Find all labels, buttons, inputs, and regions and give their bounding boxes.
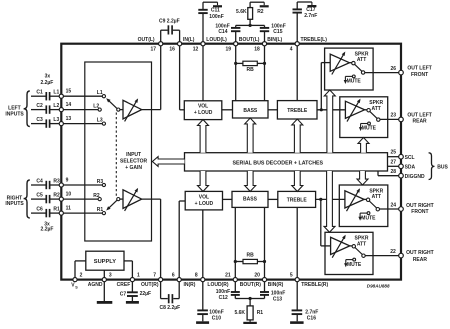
wire LOUD(L) pin 12 into volume block xyxy=(202,44,204,101)
pin 26 OUT LEFT FRONT xyxy=(390,66,431,78)
svg-text:L3: L3 xyxy=(97,117,103,123)
svg-text:1: 1 xyxy=(137,273,140,279)
SPKR ATT right front switch to output xyxy=(364,198,379,211)
pin 24 OUT RIGHT FRONT xyxy=(390,202,433,215)
node treble right output junction xyxy=(319,198,322,201)
junction RB left at pin 19 line xyxy=(234,62,237,65)
block BASS right xyxy=(232,191,268,207)
LEFT INPUTS label and brace xyxy=(5,91,29,127)
wire CREF pin 1 to supply xyxy=(124,261,132,280)
junction of C12 C13 and R1 xyxy=(249,297,252,300)
svg-text:OUT(R): OUT(R) xyxy=(141,282,159,288)
SPKR ATT left front box xyxy=(325,48,374,90)
block VOL + LOUD left xyxy=(184,101,222,120)
svg-text:27: 27 xyxy=(390,159,396,165)
IC package outline TDA7448 xyxy=(61,44,401,280)
junction of C14 C15 and R2 xyxy=(249,24,252,27)
SPKR ATT left front amplifier xyxy=(330,52,349,75)
svg-text:+ GAIN: + GAIN xyxy=(125,165,142,171)
svg-text:C11: C11 xyxy=(211,8,220,14)
svg-text:BOUT(R): BOUT(R) xyxy=(240,282,261,288)
svg-text:OUT RIGHT: OUT RIGHT xyxy=(406,203,434,209)
svg-text:INPUT: INPUT xyxy=(126,152,141,158)
SPKR ATT right rear mute switch xyxy=(344,258,362,268)
svg-text:MUTE: MUTE xyxy=(347,262,362,268)
SPKR ATT left rear amplifier xyxy=(345,99,364,122)
svg-text:TREBLE: TREBLE xyxy=(287,108,308,114)
svg-text:3: 3 xyxy=(109,273,112,279)
capacitor C5 2.2uF input coupling right channel xyxy=(31,193,61,204)
svg-text:SDA: SDA xyxy=(405,164,416,170)
control arrow to TREBLE left xyxy=(292,119,303,153)
wire volume to bass left xyxy=(222,109,233,111)
svg-text:C4: C4 xyxy=(36,178,43,184)
op-amp left input gain stage xyxy=(120,98,142,121)
wire bass to treble right xyxy=(268,198,278,200)
capacitor C10 100nF on LOUD(R) to ground xyxy=(197,280,223,322)
svg-text:OUT(L): OUT(L) xyxy=(138,37,155,43)
svg-text:C6: C6 xyxy=(36,207,43,213)
SPKR ATT left rear box xyxy=(340,97,388,138)
control arrow to VOL right xyxy=(198,171,209,191)
ground at AGND pin xyxy=(97,280,113,304)
selector contact L3 xyxy=(97,117,106,125)
control arrow to input selector xyxy=(152,157,184,167)
control arrow to BASS left xyxy=(245,118,256,153)
block TREBLE right xyxy=(278,191,316,207)
pin 23 OUT LEFT REAR xyxy=(390,112,431,124)
svg-text:19: 19 xyxy=(225,46,231,52)
svg-text:4: 4 xyxy=(290,46,293,52)
svg-text:MUTE: MUTE xyxy=(347,79,362,85)
pin 18 BIN(L) xyxy=(254,37,282,52)
ground for C16 xyxy=(290,321,304,324)
SPKR ATT right front box xyxy=(339,185,388,227)
svg-text:OUT RIGHT: OUT RIGHT xyxy=(406,250,434,256)
svg-text:15: 15 xyxy=(66,89,72,95)
svg-text:REAR: REAR xyxy=(413,257,428,263)
block TREBLE left xyxy=(277,101,317,119)
wire right input pin to selector contact R3 xyxy=(61,184,102,186)
svg-text:R1: R1 xyxy=(97,207,104,213)
pin 14 input xyxy=(59,102,71,112)
pin 4 TREBLE(L) xyxy=(290,37,328,52)
svg-text:5: 5 xyxy=(290,273,293,279)
svg-text:21: 21 xyxy=(225,273,231,279)
svg-text:26: 26 xyxy=(390,66,396,72)
svg-text:3x: 3x xyxy=(45,74,51,80)
svg-text:L1: L1 xyxy=(97,90,103,96)
svg-text:13: 13 xyxy=(66,116,72,122)
wire TREBLE(L) pin 4 into treble block xyxy=(296,44,298,101)
svg-text:25: 25 xyxy=(390,150,396,156)
wire VS pin 2 to supply xyxy=(75,261,86,280)
ground for C11 xyxy=(213,2,222,7)
wire treble right output to speaker attenuators xyxy=(316,199,345,246)
svg-text:DIGGND: DIGGND xyxy=(405,174,425,180)
RIGHT INPUTS label and brace xyxy=(5,180,29,218)
SPKR ATT right front SPKR ATT label xyxy=(369,188,383,200)
svg-text:R3: R3 xyxy=(97,179,104,185)
wire SPKR ATT right front to output pin xyxy=(380,208,402,210)
svg-text:17: 17 xyxy=(150,46,156,52)
wire left input pin to selector contact L2 xyxy=(61,109,98,111)
resistor R2 5.6K bass network to ground xyxy=(236,2,264,25)
selector wiper right channel selecting R1 xyxy=(106,198,120,211)
control arrow to BASS right xyxy=(245,171,256,191)
wire TREBLE(R) pin 5 from treble block right xyxy=(296,207,298,279)
svg-text:C7: C7 xyxy=(120,291,127,297)
svg-text:BIN(R): BIN(R) xyxy=(268,282,284,288)
wire left input pin to selector contact L1 xyxy=(61,95,102,97)
pin 7 OUT(R) xyxy=(141,273,163,288)
resistor RB internal bass left xyxy=(236,61,265,73)
pin 13 input xyxy=(59,116,71,126)
wire BIN(R) pin 20 into bass block right xyxy=(264,207,266,279)
svg-text:2.2µF: 2.2µF xyxy=(40,80,53,86)
wire IN(L) pin 16 to volume block xyxy=(180,44,185,110)
svg-text:C5: C5 xyxy=(36,193,43,199)
svg-text:22: 22 xyxy=(390,249,396,255)
block SUPPLY xyxy=(86,251,124,270)
wire treble left output to speaker attenuators xyxy=(317,63,345,110)
svg-text:L2: L2 xyxy=(53,103,59,109)
svg-text:ATT: ATT xyxy=(372,106,381,112)
SPKR ATT right front amplifier xyxy=(345,188,364,211)
svg-text:14: 14 xyxy=(66,102,72,108)
svg-text:23: 23 xyxy=(390,113,396,119)
wire BOUT(L) pin 19 into bass block xyxy=(235,44,237,101)
svg-text:BASS: BASS xyxy=(243,197,258,203)
ground for R2 xyxy=(260,2,269,7)
svg-text:SUPPLY: SUPPLY xyxy=(94,259,116,265)
svg-text:2.7nF: 2.7nF xyxy=(304,13,317,19)
svg-text:FRONT: FRONT xyxy=(411,209,428,215)
BUS brace and label xyxy=(429,153,449,180)
svg-text:C1: C1 xyxy=(36,90,43,96)
pin 6 IN(R) xyxy=(172,273,196,288)
wire SPKR ATT left rear to output pin xyxy=(380,118,401,120)
svg-text:2.2µF: 2.2µF xyxy=(41,226,54,232)
svg-text:LOUD(R): LOUD(R) xyxy=(207,282,228,288)
svg-text:BUS: BUS xyxy=(437,164,448,170)
svg-text:R1: R1 xyxy=(53,207,60,213)
wire bass to treble left xyxy=(268,109,277,111)
svg-text:22µF: 22µF xyxy=(140,291,152,297)
svg-text:28: 28 xyxy=(390,169,396,175)
capacitor C14 100nF on BOUT(L) xyxy=(215,23,250,43)
svg-text:TREBLE: TREBLE xyxy=(287,197,308,203)
svg-text:TREBLE(R): TREBLE(R) xyxy=(301,282,328,288)
pin 16 IN(L) xyxy=(169,37,194,52)
svg-text:REAR: REAR xyxy=(413,119,428,125)
svg-text:10: 10 xyxy=(66,192,72,198)
svg-text:AGND: AGND xyxy=(88,282,103,288)
svg-text:BASS: BASS xyxy=(243,108,258,114)
ground for C7 xyxy=(126,301,139,304)
svg-text:ATT: ATT xyxy=(357,241,366,247)
wire left amp output to OUT(L) pin 17 xyxy=(142,44,161,110)
control arrow to SPKR ATT left front xyxy=(324,90,335,153)
SPKR ATT left front SPKR ATT label xyxy=(355,51,369,63)
capacitor C16 2.7nF on TREBLE(R) to ground xyxy=(292,280,319,322)
junction RB right at pin 20 line xyxy=(263,260,266,263)
control arrow to SPKR ATT left rear xyxy=(358,138,369,153)
svg-text:R3: R3 xyxy=(53,178,60,184)
svg-text:20: 20 xyxy=(254,273,260,279)
selector contact L2 xyxy=(93,103,101,111)
pin 20 BIN(R) xyxy=(254,273,283,288)
op-amp right input gain stage xyxy=(120,188,142,211)
pin 1 CREF xyxy=(117,273,140,288)
svg-text:MUTE: MUTE xyxy=(361,215,376,221)
svg-text:11: 11 xyxy=(66,206,72,212)
wire left input pin to selector contact L3 xyxy=(61,123,102,125)
control arrow to SPKR ATT right rear xyxy=(324,171,335,232)
wire BIN(L) pin 18 into bass block xyxy=(264,44,266,101)
wire volume to bass right xyxy=(223,198,233,200)
ground for R1 xyxy=(243,322,256,325)
pin 27 SDA xyxy=(390,159,415,170)
selector contact R3 xyxy=(97,179,106,187)
capacitor C2 2.2uF input coupling left channel xyxy=(31,103,61,114)
svg-text:R2: R2 xyxy=(53,193,60,199)
pin 21 BOUT(R) xyxy=(225,273,261,288)
selector contact R1 xyxy=(97,207,106,215)
svg-text:C12: C12 xyxy=(219,295,228,301)
svg-text:INPUTS: INPUTS xyxy=(5,111,24,117)
svg-text:2: 2 xyxy=(80,273,83,279)
svg-text:100nF: 100nF xyxy=(209,309,223,315)
pin 9 input xyxy=(59,177,68,187)
block BASS left xyxy=(233,101,269,118)
svg-text:BOUT(L): BOUT(L) xyxy=(239,37,260,43)
ground for C10 xyxy=(196,321,209,324)
SPKR ATT right rear SPKR ATT label xyxy=(355,236,369,248)
svg-text:C2: C2 xyxy=(36,103,43,109)
svg-text:24: 24 xyxy=(390,202,396,208)
svg-text:5.6K: 5.6K xyxy=(236,9,247,15)
svg-text:MUTE: MUTE xyxy=(362,126,377,132)
wire IN(R) pin 6 to volume block right xyxy=(179,201,185,280)
pin 28 DIGGND xyxy=(390,169,425,180)
svg-text:8: 8 xyxy=(195,273,198,279)
capacitor C4 2.2uF input coupling right channel xyxy=(31,178,61,189)
pin 22 OUT RIGHT REAR xyxy=(390,249,433,263)
control arrow to SPKR ATT right front xyxy=(357,171,368,185)
SPKR ATT left rear switch to output xyxy=(365,109,380,122)
svg-text:C16: C16 xyxy=(307,316,316,322)
value note 3x 2.2uF for C4-C6 xyxy=(41,222,54,233)
svg-text:RB: RB xyxy=(246,253,254,259)
input selector inner box xyxy=(85,62,152,241)
svg-text:C15: C15 xyxy=(273,29,282,35)
pin 17 OUT(L) xyxy=(138,37,163,52)
capacitor C9 2.2uF coupling OUT(L) to IN(L) xyxy=(159,18,180,43)
svg-text:9: 9 xyxy=(66,177,69,183)
resistor RB internal bass right xyxy=(235,253,264,264)
svg-text:C14: C14 xyxy=(218,29,227,35)
svg-text:SELECTOR: SELECTOR xyxy=(120,158,148,164)
pin 19 BOUT(L) xyxy=(225,37,259,52)
capacitor C3 2.2uF input coupling left channel xyxy=(31,117,61,128)
INPUT SELECTOR + GAIN label xyxy=(120,152,148,171)
svg-text:SCL: SCL xyxy=(405,155,415,161)
wire SPKR ATT right rear to output pin xyxy=(365,255,401,257)
svg-text:C13: C13 xyxy=(273,296,282,302)
svg-text:5.6K: 5.6K xyxy=(234,310,245,316)
junction RB left at pin 18 line xyxy=(263,62,266,65)
svg-text:L2: L2 xyxy=(93,103,99,109)
svg-text:TREBLE(L): TREBLE(L) xyxy=(301,37,328,43)
block VOL + LOUD right xyxy=(185,191,222,210)
pin 5 TREBLE(R) xyxy=(290,273,329,288)
svg-text:VOL: VOL xyxy=(198,104,208,110)
svg-text:FRONT: FRONT xyxy=(411,72,428,78)
svg-text:12: 12 xyxy=(193,46,199,52)
svg-text:C10: C10 xyxy=(212,316,221,322)
svg-text:2.7nF: 2.7nF xyxy=(305,309,318,315)
svg-text:R1: R1 xyxy=(257,310,264,316)
svg-text:100nF: 100nF xyxy=(209,14,223,20)
svg-text:L1: L1 xyxy=(53,90,59,96)
capacitor C17 2.7nF on TREBLE(L) to ground xyxy=(293,2,318,44)
svg-text:ATT: ATT xyxy=(372,194,381,200)
wire right input pin to selector contact R1 xyxy=(61,212,102,214)
capacitor C12 100nF on BOUT(R) xyxy=(216,280,250,302)
svg-text:16: 16 xyxy=(169,46,175,52)
SPKR ATT left rear mute switch xyxy=(359,122,377,132)
svg-text:C9 2.2µF: C9 2.2µF xyxy=(159,18,180,24)
svg-text:SERIAL BUS DECODER + LATCHES: SERIAL BUS DECODER + LATCHES xyxy=(232,160,323,166)
svg-text:C8 2.2µF: C8 2.2µF xyxy=(160,305,181,311)
svg-text:IN(R): IN(R) xyxy=(184,282,196,288)
svg-text:R2: R2 xyxy=(93,193,100,199)
node treble left output junction xyxy=(320,108,323,111)
wire SPKR ATT left front to output pin xyxy=(365,72,401,74)
wire AGND pin 3 to supply xyxy=(103,270,105,279)
selector contact R2 xyxy=(93,193,101,201)
SPKR ATT left rear SPKR ATT label xyxy=(369,100,383,112)
junction RB right at pin 21 line xyxy=(234,260,237,263)
pin 12 LOUD(L) xyxy=(193,37,227,52)
pin 2 VS xyxy=(71,273,82,290)
svg-text:7: 7 xyxy=(153,273,156,279)
wire serial box to SCL pin xyxy=(388,156,402,158)
pin 25 SCL xyxy=(390,150,414,161)
ground for C17 xyxy=(307,2,316,7)
capacitor C13 100nF on BIN(R) xyxy=(250,280,285,303)
capacitor C8 2.2uF coupling OUT(R) to IN(R) xyxy=(160,280,181,311)
SPKR ATT right front mute switch xyxy=(358,212,376,222)
svg-text:LOUD(L): LOUD(L) xyxy=(206,37,227,43)
svg-text:L3: L3 xyxy=(53,117,59,123)
svg-text:D98AU888: D98AU888 xyxy=(367,283,390,288)
svg-text:6: 6 xyxy=(172,273,175,279)
control arrow to VOL left xyxy=(198,120,209,153)
svg-text:ATT: ATT xyxy=(357,57,366,63)
capacitor C15 100nF on BIN(L) xyxy=(250,23,286,43)
svg-text:RB: RB xyxy=(246,67,254,73)
svg-text:R2: R2 xyxy=(257,9,264,15)
svg-text:VOL: VOL xyxy=(199,195,209,201)
wire BOUT(R) pin 21 into bass block right xyxy=(234,207,236,279)
capacitor C7 22uF on CREF to ground xyxy=(120,280,151,301)
SPKR ATT right rear amplifier xyxy=(331,235,350,258)
pin 10 input xyxy=(59,192,71,202)
capacitor C1 2.2uF input coupling left channel xyxy=(31,90,61,101)
capacitor C11 100nF on LOUD(L) to ground xyxy=(198,2,223,44)
pin 15 input xyxy=(59,89,71,99)
svg-text:OUT LEFT: OUT LEFT xyxy=(407,66,431,72)
resistor R1 5.6K to ground xyxy=(234,299,263,322)
SPKR ATT left front mute switch xyxy=(344,75,362,85)
SPKR ATT left front switch to output xyxy=(349,61,364,74)
wire right amp output to OUT(R) pin 7 xyxy=(142,199,161,280)
svg-text:OUT LEFT: OUT LEFT xyxy=(407,112,431,118)
pin 8 LOUD(R) xyxy=(195,273,229,288)
wire serial box to SDA pin xyxy=(388,165,402,167)
wire right input pin to selector contact R2 xyxy=(61,198,98,200)
ganged switch dashed link xyxy=(115,113,117,197)
pin 11 input xyxy=(59,206,71,216)
svg-text:BIN(L): BIN(L) xyxy=(267,37,282,43)
block SERIAL BUS DECODER + LATCHES xyxy=(185,153,388,171)
SPKR ATT right rear box xyxy=(325,232,373,274)
svg-text:+ LOUD: + LOUD xyxy=(195,201,214,207)
value note 3x 2.2uF for C1-C3 xyxy=(40,74,53,86)
wire serial box to DIGGND pin xyxy=(378,171,401,176)
svg-text:18: 18 xyxy=(254,46,260,52)
selector contact L1 xyxy=(97,90,106,98)
svg-text:IN(L): IN(L) xyxy=(183,37,195,43)
wire LOUD(R) pin 8 into volume block right xyxy=(202,210,204,280)
capacitor C6 2.2uF input coupling right channel xyxy=(31,207,61,218)
svg-text:CREF: CREF xyxy=(117,282,131,288)
svg-text:C3: C3 xyxy=(36,117,43,123)
control arrow to TREBLE right xyxy=(292,171,303,191)
svg-text:INPUTS: INPUTS xyxy=(5,201,24,207)
selector wiper left channel selecting L1 xyxy=(106,98,120,111)
pin 3 AGND xyxy=(88,273,112,288)
svg-text:+ LOUD: + LOUD xyxy=(194,110,213,116)
SPKR ATT right rear switch to output xyxy=(350,245,365,258)
